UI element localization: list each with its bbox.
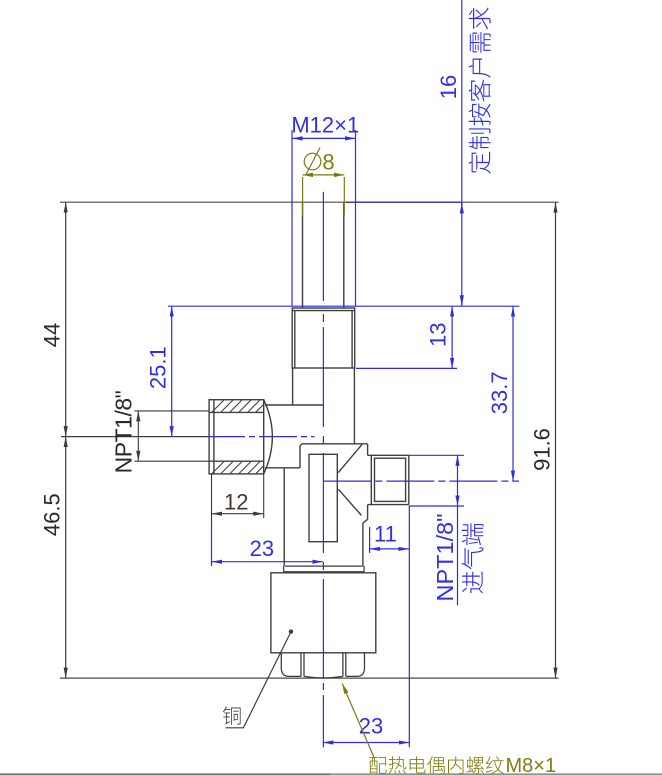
dimension 13 [451,306,453,368]
dimension 23 bottom [323,742,410,744]
hex nut bottom [281,653,364,678]
funnel lower diagonal [338,489,361,515]
dimension 91.6 [555,202,557,678]
svg-text:25.1: 25.1 [146,346,171,389]
dimension 44 [65,202,67,436]
dimension 11 [369,527,371,553]
dimension port height NPT1/8 right with divider [409,454,464,456]
dimension NPT1/8 left (black) [134,410,209,412]
svg-text:23: 23 [250,536,274,561]
tube top section [302,202,304,308]
wire blue overlay segment on top extension [346,201,462,203]
dimension 33.7 [512,306,514,481]
label 进气端 vertical blue [462,523,484,593]
svg-text:8: 8 [322,150,334,175]
svg-text:NPT1/8": NPT1/8" [432,513,458,601]
dimension 12 [211,474,213,518]
svg-text:16: 16 [436,75,461,99]
dimension 23 top [211,518,213,566]
svg-text:44: 44 [40,323,65,347]
left port top hatch band [212,400,264,412]
svg-text:13: 13 [426,322,451,346]
left port NPT1/8 threaded stub [209,400,264,474]
wire top extension line y=202 [60,201,559,203]
dimension diameter 8 (olive) [302,177,304,216]
left port fillet arc [264,400,273,474]
neck flange [284,566,365,572]
svg-text:91.6: 91.6 [530,428,555,471]
leader copper label [289,629,293,633]
left port boss [265,404,324,406]
node vertical centerline of part [322,192,324,748]
main body block [284,444,367,566]
svg-text:M8×1: M8×1 [506,755,557,776]
svg-text:12: 12 [224,490,248,515]
wire left port axis extension (gray) [61,436,209,438]
svg-text:23: 23 [359,714,383,739]
label 铜 [223,707,241,725]
extension line for 23 bottom / port right [408,506,410,747]
right port NPT1/8 stub [368,455,409,504]
dimension 25.1 [171,306,173,436]
label 定制按客户需求 [469,7,491,173]
svg-text:46.5: 46.5 [40,493,65,536]
funnel upper diagonal [338,444,362,472]
collar threaded section M12 [292,308,355,368]
label 配热电偶内螺纹M8×1 [369,756,504,774]
dimension 16 with divider line [461,0,463,306]
extension line blue y=306.2 [168,305,520,307]
svg-text:33.7: 33.7 [487,371,512,414]
extension line blue y=368.4 [356,367,457,369]
node right port axis centerline [323,480,519,482]
dimension 46.5 [65,437,67,678]
bottom window edge [0,773,330,775]
valve cavity rectangle [309,454,337,541]
leader thermocouple (olive) [342,684,374,759]
svg-text:NPT1/8": NPT1/8" [111,390,137,473]
node left port axis centerline (blue dash-dot) [207,436,315,438]
svg-text:M12×1: M12×1 [291,112,359,137]
svg-text:11: 11 [374,522,397,547]
copper block [271,573,376,653]
wire bottom extension line y=678 [60,677,559,679]
body tube below collar [292,368,294,405]
left port bottom hatch band [212,462,264,474]
dimension M12x1 [291,130,293,306]
